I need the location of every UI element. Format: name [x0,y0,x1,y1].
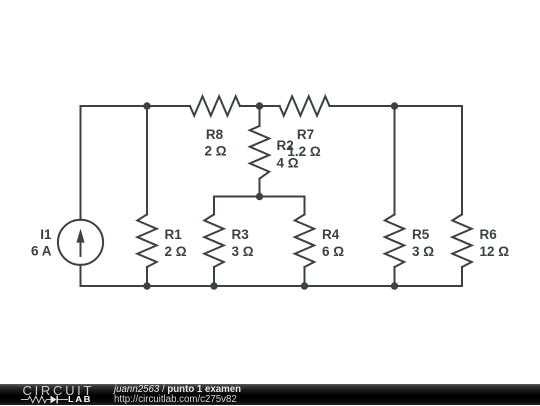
wire R3 bottom lead [213,267,215,286]
wire R3 top lead [213,197,215,215]
wire I1 bottom lead [80,265,82,286]
svg-text:R2: R2 [277,138,294,153]
svg-text:6 A: 6 A [31,244,52,259]
resistor R5 body [385,214,404,267]
svg-text:I1: I1 [40,227,52,242]
wire between R8 and R7 [240,105,280,107]
resistor R8 body [190,96,240,115]
CircuitLab logo wordmark CIRCUIT [23,384,95,397]
wire R1 top lead [146,106,148,214]
wire middle rail [214,196,305,198]
svg-text:R4: R4 [322,227,340,242]
node top junction at R5 [391,102,398,109]
current source I1 arrow head [76,229,84,243]
resistor R3 body [204,214,223,267]
svg-text:4 Ω: 4 Ω [277,155,299,170]
node bottom junction at R3 [210,282,217,289]
svg-text:R3: R3 [232,227,250,242]
svg-text:2 Ω: 2 Ω [204,143,226,158]
footer black bar [0,384,540,405]
node bottom junction at R5 [391,282,398,289]
svg-text:3 Ω: 3 Ω [232,244,254,259]
svg-text:2 Ω: 2 Ω [165,244,187,259]
wire R6 top lead (right vertical) [461,106,463,214]
node top junction at R2 [256,102,263,109]
wire R4 bottom lead [304,267,306,286]
wire R4 top lead [304,197,306,215]
wire R5 top lead [394,106,396,214]
svg-text:12 Ω: 12 Ω [480,244,510,259]
wire top-right segment [330,105,463,107]
wire R2 bottom lead [259,179,261,197]
wire R5 bottom lead [394,267,396,286]
wire R1 bottom lead [146,267,148,286]
current source I1 circle [58,220,103,265]
svg-text:R1: R1 [165,227,183,242]
svg-text:R5: R5 [412,227,430,242]
wire left vertical to I1 [80,106,82,220]
resistor R6 body [452,214,471,267]
resistor R7 body [280,96,330,115]
resistor R2 body [250,126,269,179]
svg-text:R7: R7 [297,127,314,142]
credit text [114,384,414,386]
node bottom junction at R4 [301,282,308,289]
wire R2 top lead [259,106,261,126]
wire top-left segment [81,105,191,107]
wire R6 bottom lead [461,267,463,286]
resistor R4 body [295,214,314,267]
node middle junction at R2 bottom [256,193,263,200]
node bottom junction at R1 [143,282,150,289]
CircuitLab logo LAB [68,396,92,404]
current source I1 arrow shaft [80,241,82,256]
svg-text:R8: R8 [206,127,224,142]
svg-text:R6: R6 [480,227,498,242]
resistor R1 body [137,214,156,267]
svg-text:3 Ω: 3 Ω [412,244,434,259]
wire bottom rail [81,285,463,287]
svg-text:6 Ω: 6 Ω [322,244,344,259]
node top junction at R1 [143,102,150,109]
CircuitLab logo resistor-diode squiggle [21,393,69,406]
